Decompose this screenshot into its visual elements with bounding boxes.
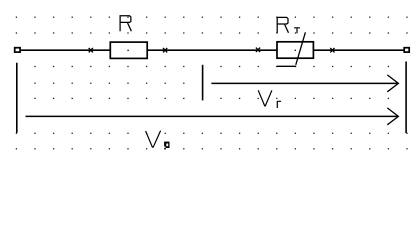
label r subscript of Vr [277,101,281,108]
junction x4 [330,48,334,53]
label V of Vr [258,90,272,106]
thermistor diagonal bottom foot [277,65,296,67]
terminal left [15,48,20,52]
label T subscript of RT [294,28,300,34]
V0 arrowhead [387,108,398,125]
V0 arrow shaft [26,115,399,117]
Vr arrowhead [387,75,398,92]
bar right (end delimiter) [405,62,407,134]
junction x1 [89,48,93,53]
junction x3 [256,48,260,53]
resistor R body [110,42,147,58]
label 0 subscript of V0 [164,142,169,150]
junction x2 [163,48,167,53]
thermistor RT body [277,42,313,58]
terminal right [404,48,409,52]
Vr arrow shaft [211,82,398,84]
bar middle (Vr start delimiter) [202,65,204,101]
label R of RT [277,17,288,33]
wire main horizontal net [20,49,404,51]
bar left (V0 start delimiter) [16,63,18,133]
label V of V0 [146,131,161,148]
label R (resistor) [120,16,131,31]
thermistor diagonal stroke [296,32,306,65]
